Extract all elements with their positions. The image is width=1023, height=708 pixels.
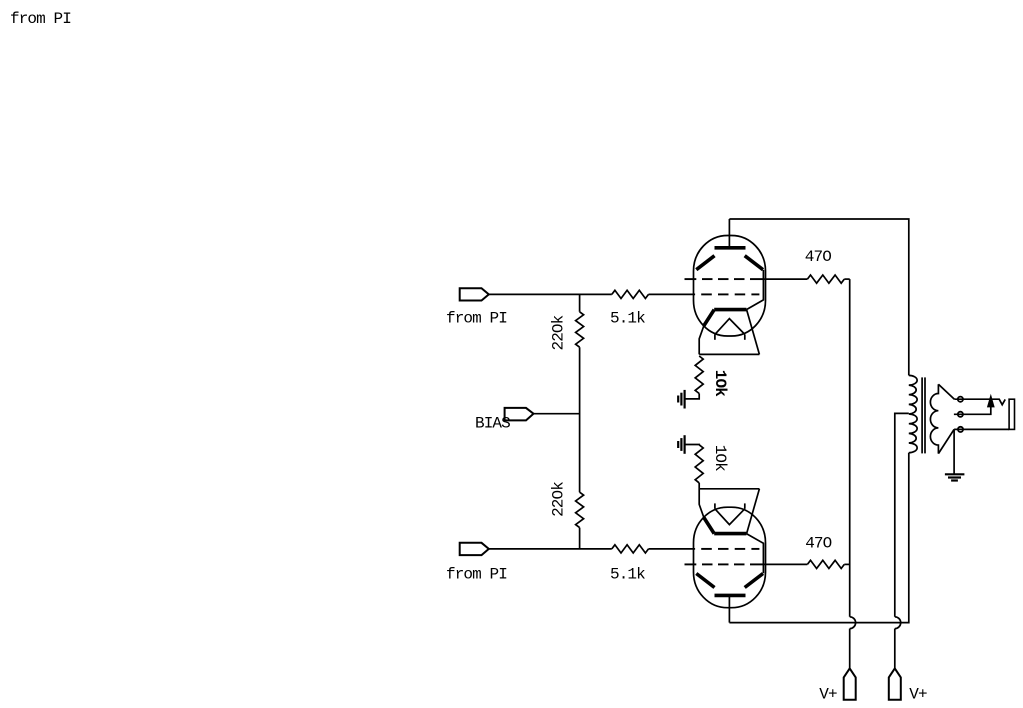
svg-text:V+: V+ (909, 686, 927, 704)
svg-text:V+: V+ (819, 686, 837, 704)
tube V2 (lower): tube envelope (694, 507, 766, 608)
input connector 'from PI' (upper) (460, 288, 489, 300)
wire input1 to grid bus junction (489, 293, 612, 295)
tube V1 (upper): tube base skirt bottom (699, 353, 759, 355)
tube V2 (lower): tube base skirt side (747, 489, 760, 534)
secondary flare top (938, 384, 954, 399)
jack switch wire with arrow (954, 394, 995, 415)
wire V2 screen to 470 (763, 563, 807, 565)
svg-text:22Ok: 22Ok (549, 482, 567, 517)
tube V1 (upper): anode lead (728, 219, 730, 248)
svg-text:5.1k: 5.1k (610, 310, 645, 328)
tube V1 (upper): cathode bar (714, 308, 746, 312)
wire 5.1k to tube V1 grid (649, 293, 696, 295)
jack sleeve wire (954, 428, 1009, 430)
wire 10k to ground (upper) (685, 394, 700, 399)
wire BIAS to grid bus (534, 413, 580, 415)
wire input2 to grid bus junction (489, 548, 612, 550)
wire jack sleeve to ground (953, 429, 955, 474)
tube V2 (lower): heater tick (right) (744, 503, 746, 508)
tube V2 (lower): cathode lead to base (699, 489, 704, 518)
tube V2 (lower): tube base skirt bottom (699, 488, 759, 490)
tube V2 (lower): heater tick (left) (714, 503, 716, 508)
ground (output jack) (945, 474, 965, 480)
resistor 220k (lower grid-return) (576, 492, 584, 527)
ground (lower tube cathode) (678, 435, 684, 454)
jack terminal (sleeve, bottom) (958, 427, 963, 432)
tube V2 (lower): control grid (dashed) (701, 548, 759, 550)
svg-text:5.1k: 5.1k (610, 565, 645, 583)
svg-text:1Ok: 1Ok (711, 445, 729, 471)
svg-text:from PI: from PI (10, 10, 71, 28)
jack terminal (tip, top) (958, 397, 963, 402)
wire grid bus middle (579, 347, 581, 492)
resistor 470 (upper screen) (807, 275, 844, 283)
tube V2 (lower): beam-forming plate (right) (745, 574, 763, 588)
svg-text:47O: 47O (805, 535, 831, 553)
tube V1 (upper): heater filament V (715, 319, 745, 335)
resistor 220k (upper grid-return) (576, 312, 584, 347)
ground (upper tube cathode) (678, 390, 684, 409)
transformer primary winding (909, 375, 917, 452)
tube V2 (lower): cathode bar (714, 532, 746, 536)
resistor 470 (lower screen) (807, 560, 844, 568)
wire screen supply to V+ (with crossover hop) (850, 279, 856, 668)
tube V1 (upper): beam plate to cathode tie (746, 270, 763, 310)
svg-text:BIAS: BIAS (475, 414, 510, 432)
power connector V+ (right) (889, 668, 901, 699)
tube V2 (lower): beam-forming plate (left) (696, 574, 714, 588)
resistor 5.1k (upper grid stopper) (612, 290, 649, 298)
resistor 10k (lower cathode) (695, 445, 703, 483)
wire grid bus bottom (579, 528, 581, 549)
tube V1 (upper): heater tick (left) (714, 334, 716, 339)
resistor 5.1k (lower grid stopper) (612, 545, 649, 553)
transformer core (922, 377, 925, 453)
tube V2 (lower): screen grid (dashed) (685, 563, 764, 565)
wire centre tap crossover hop (895, 617, 901, 669)
tube V1 (upper): anode (plate) bar (715, 246, 746, 250)
tube V1 (upper): tube envelope (694, 236, 766, 337)
tube V2 (lower): cathode bar bend (704, 518, 714, 534)
tube V1 (upper): cathode lead to base (699, 326, 704, 355)
wire 470 to V+ rail (lower) (844, 563, 849, 565)
tube V2 (lower): beam plate to cathode tie (746, 534, 763, 574)
node junction upper (grid bus / input 1) (579, 294, 581, 311)
resistor 10k (upper cathode) (695, 356, 703, 394)
jack terminal (ring, middle) (958, 412, 963, 417)
tube V2 (lower): anode (plate) bar (715, 594, 746, 598)
phone plug body (1009, 399, 1014, 429)
svg-text:22Ok: 22Ok (550, 315, 568, 350)
svg-text:47O: 47O (805, 248, 831, 266)
jack tip contact wire with break (954, 399, 1005, 405)
svg-text:from PI: from PI (446, 310, 507, 328)
input connector BIAS (505, 408, 534, 421)
wire V1 anode to transformer primary top (729, 219, 908, 375)
secondary flare bottom (938, 429, 954, 453)
tube V1 (upper): beam-forming plate (right) (745, 256, 763, 270)
transformer centre tap (895, 413, 909, 616)
wire 5.1k to tube V2 grid (649, 548, 696, 550)
tube V2 (lower): heater filament V (715, 509, 745, 525)
tube V1 (upper): screen grid (dashed) (685, 278, 764, 280)
tube V1 (upper): heater tick (right) (744, 334, 746, 339)
svg-text:from PI: from PI (446, 565, 507, 583)
tube V1 (upper): beam-forming plate (left) (696, 256, 714, 270)
wire 10k to ground (lower) (685, 444, 700, 446)
tube V2 (lower): anode lead (728, 595, 730, 622)
svg-text:1Ok: 1Ok (711, 370, 729, 397)
wire 10k to base (lower) (698, 483, 700, 489)
wire 470 to V+ rail (upper) (844, 278, 849, 280)
wire V2 anode to transformer primary bottom (729, 453, 908, 623)
transformer secondary winding (930, 384, 938, 453)
input connector 'from PI' (lower) (460, 543, 489, 555)
tube V1 (upper): cathode bar bend (704, 310, 714, 326)
tube V1 (upper): control grid (dashed) (701, 293, 759, 295)
tube V1 (upper): tube base skirt side (747, 310, 760, 355)
power connector V+ (left) (844, 668, 856, 699)
wire V1 screen to 470 (763, 278, 807, 280)
